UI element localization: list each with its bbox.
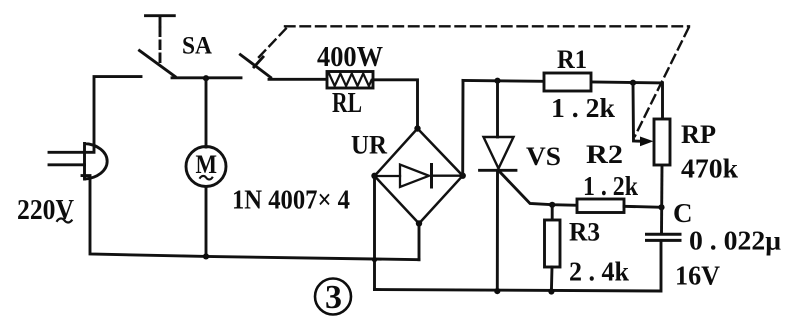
wire RL to bridge top vertex (373, 80, 418, 129)
resistor RL heater body (327, 72, 373, 89)
svg-text:470k: 470k (681, 154, 738, 184)
dashed mechanical linkage diagonal to RP (635, 28, 689, 136)
R3 rail junction dot (548, 288, 554, 294)
switch SA pole 2 blade (240, 55, 270, 78)
thyristor VS triangle (484, 137, 514, 169)
wire return rail up to bridge bottom vertex (418, 224, 421, 260)
bridge top vertex junction dot (414, 125, 420, 131)
crossing blob at return rail (372, 257, 377, 262)
svg-text:R2: R2 (586, 140, 623, 169)
dashed mechanical linkage SA to top (259, 28, 287, 58)
svg-text:16V: 16V (675, 261, 720, 291)
svg-text:RL: RL (332, 88, 362, 119)
svg-text:1N 4007× 4: 1N 4007× 4 (232, 185, 350, 215)
svg-text:VS: VS (526, 142, 561, 171)
DC minus bottom rail (375, 242, 662, 292)
potentiometer RP wiper arrowhead (640, 137, 654, 147)
R2/RP/C junction dot (658, 204, 664, 210)
wire SA pole2 to RL (269, 78, 327, 81)
switch SA pole 2 linkage tick (254, 57, 263, 67)
switch SA pole 1 blade (140, 51, 176, 77)
thyristor anode junction dot (494, 78, 500, 84)
gate/R3 junction dot (549, 202, 555, 208)
bridge bottom vertex junction dot (416, 220, 422, 226)
capacitor C bottom plate (647, 239, 681, 242)
wire bridge right vertex (DC+) riser (461, 80, 464, 175)
svg-text:2 . 4k: 2 . 4k (569, 257, 629, 287)
wire R2 to RP bottom (624, 206, 662, 207)
potentiometer RP wiper arm (633, 83, 643, 142)
switch SA T-bar actuator (146, 16, 175, 26)
resistor R3 top wire (551, 205, 554, 220)
thyristor VS anode wire (496, 81, 499, 137)
svg-text:SA: SA (182, 33, 212, 60)
bridge rectifier UR diamond (375, 129, 463, 224)
potentiometer RP bottom wire (660, 165, 663, 234)
thyristor VS cathode bar (480, 169, 517, 172)
wire SA pole1 to node A and pole2 contact (172, 76, 241, 79)
svg-text:RP: RP (681, 120, 716, 149)
motor bottom junction dot (203, 253, 209, 259)
svg-text:UR: UR (351, 131, 387, 160)
svg-text:1 . 2k: 1 . 2k (583, 171, 638, 201)
switch SA actuator dashed link (159, 28, 162, 64)
svg-text:R3: R3 (569, 218, 600, 247)
motor label M (196, 150, 218, 179)
thyristor VS gate wire (500, 172, 578, 206)
svg-text:M: M (196, 150, 218, 179)
bridge left vertex junction dot (371, 173, 377, 179)
resistor R3 bottom wire (550, 267, 553, 292)
motor branch wire top (205, 78, 208, 147)
svg-text:1 . 2k: 1 . 2k (551, 93, 615, 123)
svg-text:C: C (673, 198, 693, 228)
svg-text:3: 3 (325, 279, 342, 316)
thyristor VS cathode wire (496, 170, 499, 291)
wiper tap junction dot (630, 80, 636, 86)
node A junction dot (203, 75, 209, 81)
DC plus top rail to R1 (463, 80, 663, 119)
motor branch wire bottom (205, 187, 208, 257)
resistor R1 body (544, 73, 591, 91)
wire plug top to SA fixed contact (85, 77, 142, 153)
bridge right vertex junction dot (460, 173, 466, 179)
svg-text:400W: 400W (317, 42, 383, 73)
plug X (220V mains) (49, 144, 107, 180)
resistor R2 body (577, 199, 624, 213)
motor M circle (186, 147, 226, 187)
wire bridge left vertex (DC-) down (373, 176, 376, 290)
svg-text:R1: R1 (557, 45, 587, 74)
figure number circled 3 (315, 279, 351, 317)
cathode rail junction dot (494, 288, 500, 294)
bridge UR internal diode (375, 165, 463, 188)
label 220V (17, 194, 74, 226)
resistor R3 body (545, 220, 561, 267)
potentiometer RP body (654, 119, 670, 165)
dashed mechanical linkage horizontal (285, 25, 689, 27)
capacitor C top plate (647, 233, 681, 236)
svg-text:0 . 022μ: 0 . 022μ (689, 226, 781, 256)
wire plug bottom to return rail (82, 176, 419, 260)
